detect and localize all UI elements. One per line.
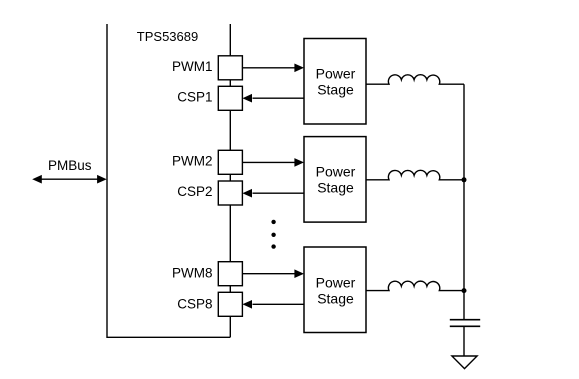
svg-text:Power: Power: [316, 274, 356, 290]
svg-text:Stage: Stage: [317, 81, 354, 97]
svg-text:PMBus: PMBus: [48, 158, 92, 173]
svg-text:CSP1: CSP1: [177, 90, 212, 105]
svg-text:Stage: Stage: [317, 290, 354, 306]
svg-text:Stage: Stage: [317, 180, 354, 196]
svg-text:PWM2: PWM2: [172, 153, 213, 168]
svg-text:PWM8: PWM8: [172, 265, 213, 280]
svg-text:TPS53689: TPS53689: [137, 29, 198, 44]
svg-text:Power: Power: [316, 164, 356, 180]
svg-text:Power: Power: [316, 65, 356, 81]
svg-text:CSP8: CSP8: [177, 297, 212, 312]
svg-text:CSP2: CSP2: [177, 184, 212, 199]
svg-text:PWM1: PWM1: [172, 59, 213, 74]
